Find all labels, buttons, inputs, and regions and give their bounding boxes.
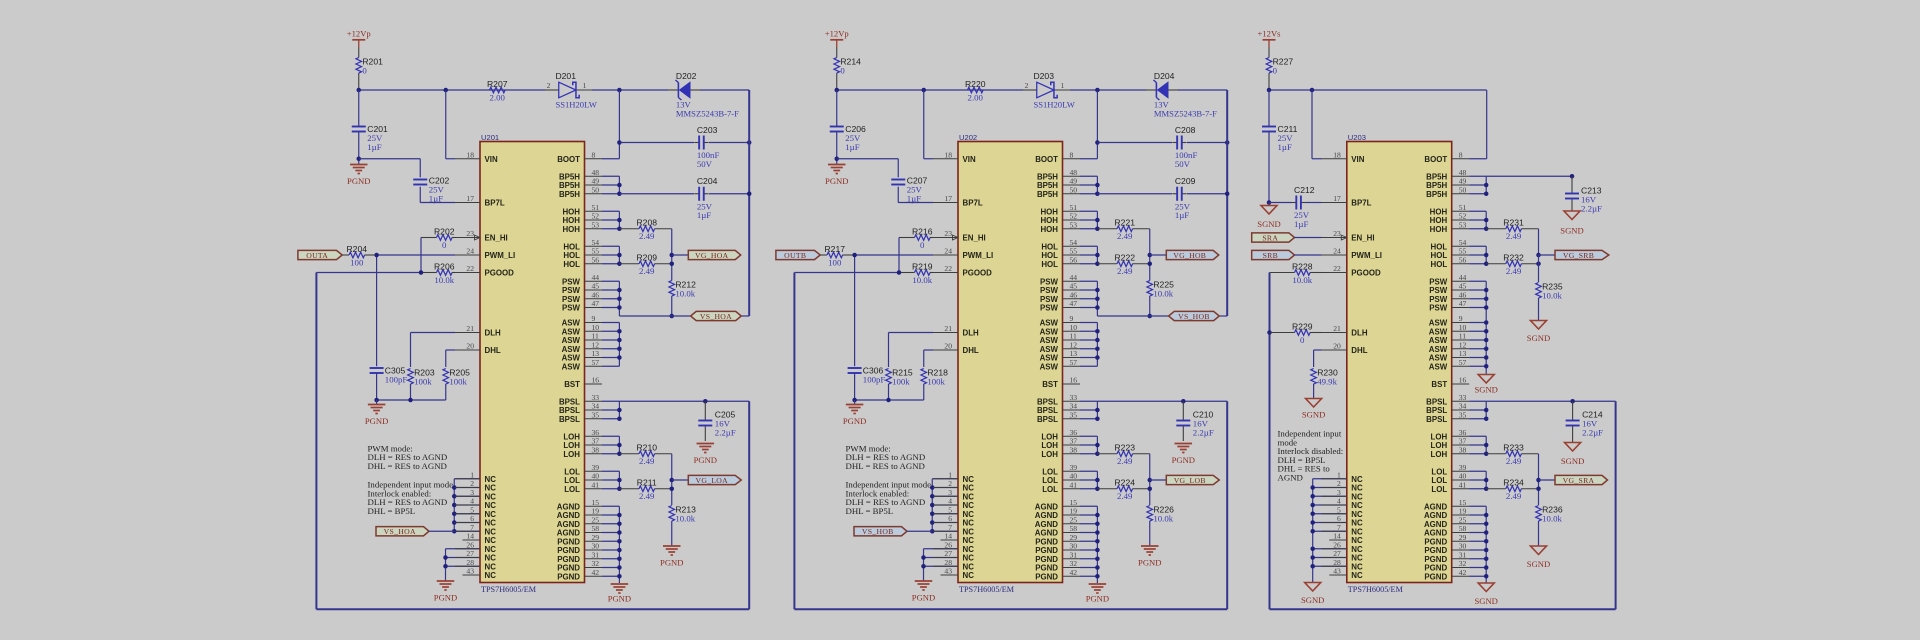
- junction: [408, 398, 413, 403]
- junction: [419, 270, 424, 275]
- svg-text:2.49: 2.49: [1117, 231, 1133, 241]
- ground SGND: [1474, 583, 1497, 606]
- note text: [846, 443, 926, 471]
- svg-text:PSW: PSW: [562, 304, 581, 313]
- svg-text:11: 11: [1070, 332, 1078, 341]
- pin 12 ASW: [1040, 340, 1080, 354]
- capacitor C210: [1176, 401, 1214, 441]
- svg-text:R208: R208: [636, 218, 657, 228]
- svg-text:PGND: PGND: [660, 558, 683, 568]
- wire VIN: [1312, 90, 1322, 159]
- resistor R228: [1270, 261, 1322, 285]
- resistor R225: [1147, 279, 1174, 298]
- resistor R223: [1097, 443, 1149, 467]
- svg-text:25: 25: [1459, 515, 1467, 524]
- pin 24 PWM_LI: [455, 247, 515, 261]
- svg-text:PWM_LI: PWM_LI: [485, 251, 516, 260]
- svg-text:LOH: LOH: [1041, 450, 1058, 459]
- svg-text:C208: C208: [1175, 125, 1196, 135]
- svg-text:R220: R220: [965, 79, 986, 89]
- svg-text:LOL: LOL: [1431, 476, 1447, 485]
- svg-text:HOL: HOL: [563, 242, 580, 251]
- svg-text:BPSL: BPSL: [1037, 406, 1058, 415]
- wire VG_LO port: [672, 479, 689, 481]
- resistor R224: [1097, 478, 1149, 502]
- svg-text:BP7L: BP7L: [1351, 199, 1371, 208]
- svg-text:NC: NC: [485, 492, 497, 501]
- svg-text:SGND: SGND: [1301, 595, 1324, 605]
- svg-text:U201: U201: [481, 133, 499, 142]
- svg-text:VS_HOB: VS_HOB: [862, 527, 894, 536]
- svg-text:R202: R202: [434, 226, 455, 236]
- junction: [617, 530, 622, 535]
- pin 44 PSW: [1429, 273, 1469, 287]
- svg-text:0: 0: [362, 65, 367, 75]
- svg-text:49: 49: [1070, 177, 1078, 186]
- svg-text:PSW: PSW: [1040, 277, 1059, 286]
- junction: [1484, 262, 1489, 267]
- svg-text:NC: NC: [485, 554, 497, 563]
- junction: [357, 157, 362, 162]
- wire VIN: [924, 90, 933, 159]
- svg-text:1µF: 1µF: [697, 210, 711, 220]
- svg-text:LOL: LOL: [1431, 485, 1447, 494]
- junction: [1095, 329, 1100, 334]
- wire VG_SRA port: [1539, 479, 1556, 481]
- ground PGND: [1172, 444, 1195, 466]
- svg-text:2.49: 2.49: [1117, 491, 1133, 501]
- pin 29 PGND: [557, 533, 602, 547]
- wire C211 leads: [1268, 90, 1270, 203]
- junction: [617, 253, 622, 258]
- pin 9 ASW: [562, 314, 602, 328]
- pin 8 BOOT: [1035, 150, 1080, 164]
- svg-text:DLH: DLH: [1351, 329, 1368, 338]
- svg-text:VS_HOB: VS_HOB: [1178, 312, 1210, 321]
- resistor R231: [1486, 218, 1538, 242]
- junction: [1095, 530, 1100, 535]
- svg-text:PSW: PSW: [1429, 295, 1448, 304]
- svg-text:BOOT: BOOT: [1424, 155, 1447, 164]
- svg-text:R209: R209: [636, 253, 657, 263]
- pin 49 BP5H: [1426, 177, 1469, 191]
- wire VS row: [619, 315, 749, 317]
- svg-text:10.0k: 10.0k: [675, 288, 695, 298]
- pin 20 DHL: [455, 342, 501, 356]
- svg-text:2.49: 2.49: [1506, 266, 1522, 276]
- pin 46 PSW: [1429, 290, 1469, 304]
- pin 40 LOL: [564, 472, 602, 486]
- pin 10 ASW: [1429, 323, 1469, 337]
- svg-text:53: 53: [592, 220, 600, 229]
- svg-text:50: 50: [592, 185, 600, 194]
- svg-text:26: 26: [1333, 540, 1341, 549]
- pin 2 NC: [1322, 479, 1363, 493]
- pin 34 BPSL: [559, 402, 602, 416]
- svg-text:SGND: SGND: [1302, 410, 1325, 420]
- junction: [1484, 574, 1489, 579]
- resistor R213: [669, 504, 696, 523]
- junction: [670, 262, 675, 267]
- pin 37 LOH: [1041, 437, 1080, 451]
- junction: [617, 355, 622, 360]
- junction: [617, 565, 622, 570]
- pin 52 HOH: [1430, 212, 1470, 226]
- resistor R207: [487, 79, 508, 103]
- ground PGND: [434, 581, 457, 603]
- svg-text:38: 38: [592, 445, 600, 454]
- svg-text:23: 23: [1333, 229, 1341, 238]
- ground PGND: [660, 546, 683, 568]
- svg-text:10.0k: 10.0k: [1292, 275, 1312, 285]
- svg-text:2: 2: [948, 479, 952, 488]
- wire C201 leads: [358, 90, 360, 159]
- svg-text:39: 39: [1459, 463, 1467, 472]
- junction: [1095, 452, 1100, 457]
- svg-text:NC: NC: [963, 536, 975, 545]
- wire BOOT: [1080, 90, 1097, 159]
- svg-text:10.0k: 10.0k: [912, 275, 932, 285]
- pin 53 HOH: [562, 220, 602, 234]
- resistor R212: [669, 279, 696, 298]
- wire BP5L tie: [1080, 401, 1097, 419]
- junction: [1225, 192, 1230, 197]
- IC U203 TPS7H6005/EM: [1347, 133, 1452, 594]
- junction: [852, 253, 857, 258]
- resistor R222: [1097, 253, 1149, 277]
- wire R235 link: [1538, 255, 1540, 282]
- svg-text:33: 33: [592, 393, 600, 402]
- junction: [1484, 320, 1489, 325]
- svg-text:AGND: AGND: [1424, 502, 1448, 511]
- pin 38 LOH: [1041, 445, 1080, 459]
- junction: [617, 539, 622, 544]
- junction: [1310, 485, 1315, 490]
- svg-text:NC: NC: [1351, 484, 1363, 493]
- ground SGND: [1527, 546, 1550, 569]
- svg-text:PSW: PSW: [562, 277, 581, 286]
- svg-text:BP5H: BP5H: [559, 172, 580, 181]
- svg-text:NC: NC: [963, 492, 975, 501]
- wire AGND PGND rail: [1080, 506, 1097, 583]
- svg-text:5: 5: [1337, 505, 1341, 514]
- junction: [1484, 227, 1489, 232]
- junction: [617, 522, 622, 527]
- svg-text:47: 47: [592, 299, 600, 308]
- svg-text:0: 0: [1300, 335, 1305, 345]
- svg-text:37: 37: [1459, 437, 1467, 446]
- svg-text:AGND: AGND: [557, 529, 581, 538]
- svg-text:LOL: LOL: [1042, 476, 1058, 485]
- resistor R226: [1147, 504, 1174, 523]
- svg-text:VG_SRA: VG_SRA: [1563, 476, 1595, 485]
- svg-text:38: 38: [1459, 445, 1467, 454]
- svg-text:46: 46: [592, 290, 600, 299]
- svg-text:LOH: LOH: [1431, 450, 1448, 459]
- pin 42 PGND: [1035, 568, 1080, 582]
- svg-text:VG_HOB: VG_HOB: [1173, 251, 1206, 260]
- wire BP5L return loop: [794, 273, 1227, 610]
- svg-text:HOH: HOH: [1430, 216, 1448, 225]
- svg-text:EN_HI: EN_HI: [1351, 234, 1374, 243]
- pin 28 NC: [455, 558, 496, 572]
- svg-text:ASW: ASW: [1429, 362, 1448, 371]
- svg-text:51: 51: [592, 203, 600, 212]
- pin 27 NC: [455, 549, 496, 563]
- svg-text:BPSL: BPSL: [1037, 415, 1058, 424]
- junction: [617, 557, 622, 562]
- zener diode D202: [668, 71, 739, 118]
- svg-text:16: 16: [1459, 376, 1467, 385]
- svg-text:NC: NC: [963, 527, 975, 536]
- junction: [1536, 253, 1541, 258]
- svg-text:ASW: ASW: [1040, 319, 1059, 328]
- note text: [368, 480, 454, 516]
- junction: [1310, 503, 1315, 508]
- power +12Vp: [825, 29, 849, 48]
- svg-text:ASW: ASW: [1040, 336, 1059, 345]
- svg-text:NC: NC: [1351, 519, 1363, 528]
- svg-text:VG_HOA: VG_HOA: [695, 251, 729, 260]
- junction: [1484, 522, 1489, 527]
- svg-text:44: 44: [592, 273, 600, 282]
- svg-text:SGND: SGND: [1527, 333, 1550, 343]
- junction: [452, 494, 457, 499]
- pin 15 AGND: [557, 498, 602, 512]
- svg-text:HOH: HOH: [1040, 216, 1058, 225]
- svg-text:VS_HOA: VS_HOA: [700, 312, 732, 321]
- pin 29 PGND: [1424, 533, 1469, 547]
- svg-text:41: 41: [592, 480, 600, 489]
- pin 12 ASW: [1429, 340, 1469, 354]
- junction: [1267, 330, 1272, 335]
- junction: [670, 314, 675, 319]
- pin 22 PGOOD: [1322, 264, 1381, 278]
- svg-text:LOH: LOH: [563, 450, 580, 459]
- svg-text:HOH: HOH: [1040, 225, 1058, 234]
- pin 40 LOL: [1431, 472, 1469, 486]
- svg-text:1µF: 1µF: [1294, 219, 1308, 229]
- svg-text:DHL: DHL: [485, 346, 501, 355]
- svg-text:+12Vs: +12Vs: [1258, 29, 1282, 39]
- svg-text:34: 34: [592, 402, 600, 411]
- svg-text:28: 28: [1333, 558, 1341, 567]
- resistor R211: [619, 478, 671, 502]
- resistor R236: [1536, 504, 1563, 523]
- junction: [1484, 329, 1489, 334]
- junction: [930, 529, 935, 534]
- svg-text:51: 51: [1070, 203, 1078, 212]
- svg-text:VIN: VIN: [963, 155, 976, 164]
- junction: [670, 478, 675, 483]
- svg-text:18: 18: [1333, 150, 1341, 159]
- ground PGND: [608, 584, 631, 604]
- svg-text:12: 12: [1459, 340, 1467, 349]
- svg-text:19: 19: [1459, 507, 1467, 516]
- port VS_HOA: [376, 527, 429, 537]
- svg-text:5: 5: [470, 505, 474, 514]
- svg-text:21: 21: [466, 324, 474, 333]
- capacitor C207: [891, 176, 927, 204]
- pin 32 PGND: [1035, 559, 1080, 573]
- svg-text:DHL = RES to AGND: DHL = RES to AGND: [846, 461, 925, 471]
- pin 18 VIN: [933, 150, 976, 164]
- svg-text:32: 32: [1070, 559, 1078, 568]
- svg-text:PGND: PGND: [557, 546, 580, 555]
- svg-text:R233: R233: [1503, 443, 1524, 453]
- junction: [374, 253, 379, 258]
- svg-text:2.49: 2.49: [639, 456, 655, 466]
- junction: [1095, 218, 1100, 223]
- resistor R219: [899, 261, 933, 285]
- pin 38 LOH: [563, 445, 602, 459]
- svg-text:10: 10: [1070, 323, 1078, 332]
- port VG_HOA: [688, 250, 740, 260]
- svg-text:31: 31: [592, 550, 600, 559]
- wire BP5L row: [1097, 401, 1227, 609]
- svg-text:NC: NC: [963, 501, 975, 510]
- svg-text:11: 11: [592, 332, 600, 341]
- wire NC tie: [932, 479, 958, 532]
- note text: [846, 480, 932, 516]
- pin 51 HOH: [1430, 203, 1470, 217]
- wire VG_LO vertical: [671, 454, 673, 505]
- svg-text:PWM_LI: PWM_LI: [963, 251, 994, 260]
- junction: [1095, 443, 1100, 448]
- svg-text:42: 42: [1459, 568, 1467, 577]
- junction: [930, 503, 935, 508]
- capacitor C208: [1172, 125, 1197, 169]
- svg-text:R231: R231: [1503, 218, 1524, 228]
- svg-text:VG_LOA: VG_LOA: [695, 476, 728, 485]
- power +12Vs: [1258, 29, 1282, 48]
- svg-text:VS_HOA: VS_HOA: [384, 527, 416, 536]
- wire VS bus: [1226, 90, 1228, 316]
- junction: [617, 574, 622, 579]
- svg-text:LOL: LOL: [1431, 467, 1447, 476]
- svg-text:VIN: VIN: [485, 155, 498, 164]
- pin 2 NC: [933, 479, 974, 493]
- svg-text:HOH: HOH: [562, 216, 580, 225]
- pin 29 PGND: [1035, 533, 1080, 547]
- pin 27 NC: [933, 549, 974, 563]
- junction: [930, 512, 935, 517]
- svg-text:NC: NC: [485, 527, 497, 536]
- pin 6 NC: [455, 514, 496, 528]
- junction: [1095, 305, 1100, 310]
- svg-text:2.00: 2.00: [968, 92, 984, 102]
- pin 19 AGND: [1035, 507, 1080, 521]
- wire +12V rail: [1269, 89, 1487, 91]
- svg-text:LOH: LOH: [1041, 441, 1058, 450]
- wire ASW tie: [1080, 323, 1097, 367]
- svg-text:1: 1: [948, 470, 952, 479]
- junction: [670, 487, 675, 492]
- svg-text:HOH: HOH: [562, 207, 580, 216]
- svg-text:57: 57: [592, 358, 600, 367]
- junction: [617, 262, 622, 267]
- svg-text:0: 0: [920, 240, 925, 250]
- pin 5 NC: [455, 505, 496, 519]
- resistor R234: [1486, 478, 1538, 502]
- junction: [921, 564, 926, 569]
- port VG_SRA: [1555, 475, 1608, 485]
- svg-text:54: 54: [1459, 238, 1467, 247]
- svg-text:20: 20: [944, 342, 952, 351]
- junction: [1310, 547, 1315, 552]
- junction: [1484, 347, 1489, 352]
- junction: [1484, 183, 1489, 188]
- svg-text:32: 32: [1459, 559, 1467, 568]
- junction: [1095, 539, 1100, 544]
- wire C201 leads: [836, 90, 838, 159]
- svg-text:ASW: ASW: [1429, 319, 1448, 328]
- svg-text:LOL: LOL: [564, 476, 580, 485]
- svg-text:22: 22: [1333, 264, 1341, 273]
- junction: [1484, 218, 1489, 223]
- pin 10 ASW: [562, 323, 602, 337]
- svg-text:100: 100: [350, 257, 364, 267]
- pin 55 HOL: [1041, 247, 1080, 261]
- svg-text:35: 35: [592, 410, 600, 419]
- svg-text:HOH: HOH: [1430, 207, 1448, 216]
- svg-text:51: 51: [1459, 203, 1467, 212]
- svg-text:AGND: AGND: [1424, 529, 1448, 538]
- svg-text:LOH: LOH: [563, 441, 580, 450]
- svg-text:ASW: ASW: [1429, 336, 1448, 345]
- svg-text:BP5H: BP5H: [559, 181, 580, 190]
- junction: [922, 88, 927, 93]
- junction: [617, 417, 622, 422]
- IC U202 TPS7H6005/EM: [958, 133, 1063, 594]
- pin 43 NC: [463, 567, 497, 581]
- pin 47 PSW: [1040, 299, 1080, 313]
- capacitor C206: [830, 124, 866, 152]
- svg-text:PGND: PGND: [1086, 594, 1109, 604]
- junction: [452, 512, 457, 517]
- pin 45 PSW: [562, 282, 602, 296]
- svg-text:ASW: ASW: [1429, 354, 1448, 363]
- svg-text:C203: C203: [697, 125, 718, 135]
- svg-text:2.00: 2.00: [490, 92, 506, 102]
- ground SGND: [1257, 206, 1280, 230]
- wire C305 gnd: [376, 373, 378, 400]
- svg-text:21: 21: [1333, 324, 1341, 333]
- svg-text:PGND: PGND: [1424, 537, 1447, 546]
- pin 41 LOL: [564, 480, 602, 494]
- svg-text:R234: R234: [1503, 478, 1524, 488]
- wire LOL tie: [602, 471, 619, 489]
- pin 34 BPSL: [1037, 402, 1080, 416]
- svg-text:26: 26: [944, 540, 952, 549]
- junction: [617, 88, 622, 93]
- svg-text:BPSL: BPSL: [559, 397, 580, 406]
- svg-text:100k: 100k: [449, 376, 467, 386]
- junction: [1484, 530, 1489, 535]
- wire VG_LO port: [1150, 479, 1167, 481]
- svg-text:49.9k: 49.9k: [1317, 376, 1337, 386]
- svg-text:PGND: PGND: [825, 176, 848, 186]
- svg-text:2.49: 2.49: [1117, 456, 1133, 466]
- junction: [1484, 288, 1489, 293]
- svg-text:PGND: PGND: [608, 594, 631, 604]
- svg-text:BOOT: BOOT: [557, 155, 580, 164]
- svg-text:AGND: AGND: [1035, 502, 1059, 511]
- svg-text:10.0k: 10.0k: [1153, 288, 1173, 298]
- ground SGND: [1474, 375, 1497, 395]
- pin 58 AGND: [1035, 524, 1080, 538]
- junction: [835, 157, 840, 162]
